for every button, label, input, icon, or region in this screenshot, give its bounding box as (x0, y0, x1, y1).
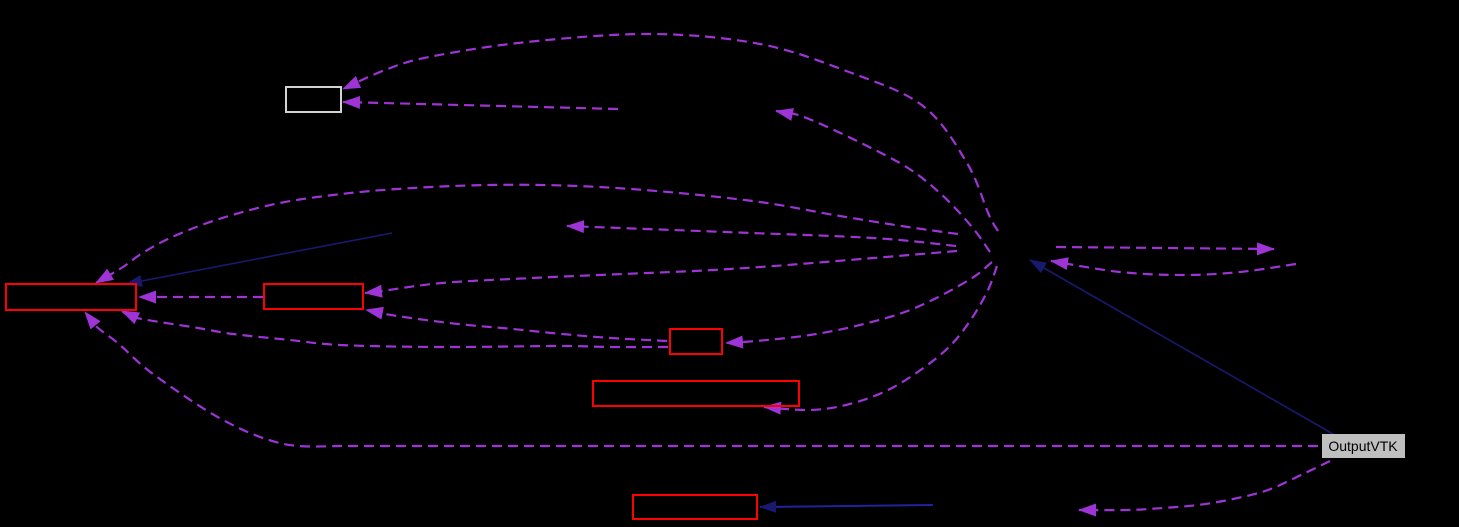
wire hub to red box 2 (365, 251, 957, 293)
wire hidden node A to red box 1 (inheritance, solid blue) (126, 233, 392, 284)
wire hub to red box 1 (long left arc) (96, 185, 958, 283)
wire hidden node C back to hub (1051, 261, 1296, 275)
node red box 2 (264, 284, 363, 309)
node red box 4 (593, 381, 799, 406)
wire hub to red box 3 (726, 262, 992, 343)
wire hidden node B to gray header box (343, 102, 618, 109)
wire hub to gray header box (top arc) (343, 34, 998, 231)
svg-text:OutputVTK: OutputVTK (1328, 438, 1398, 454)
wire hub to hidden node B (inner arc) (776, 111, 990, 252)
wire hub to hidden node A (567, 226, 956, 246)
wire hub to hidden node C (right) (1056, 247, 1274, 249)
node red box 3 (670, 329, 722, 354)
wire OutputVTK to red box 1 (long bottom line) (85, 312, 1318, 447)
wire hub to red box 4 (764, 266, 997, 410)
node gray header box (286, 87, 341, 112)
wire red box 3 to red box 2 (366, 310, 667, 341)
node red box 5 (633, 495, 757, 519)
wire red box 2 to red box 1 (139, 296, 263, 298)
wire red box 3 to red box 1 (bottom) (122, 311, 668, 347)
node OutputVTK (1322, 434, 1405, 458)
node red box 1 (6, 284, 136, 310)
wire hidden node to red box 5 (solid blue) (760, 505, 933, 507)
wire OutputVTK to hidden node D (bottom right curve) (1079, 461, 1330, 510)
wire OutputVTK to hub (inheritance, solid blue) (1030, 260, 1333, 434)
